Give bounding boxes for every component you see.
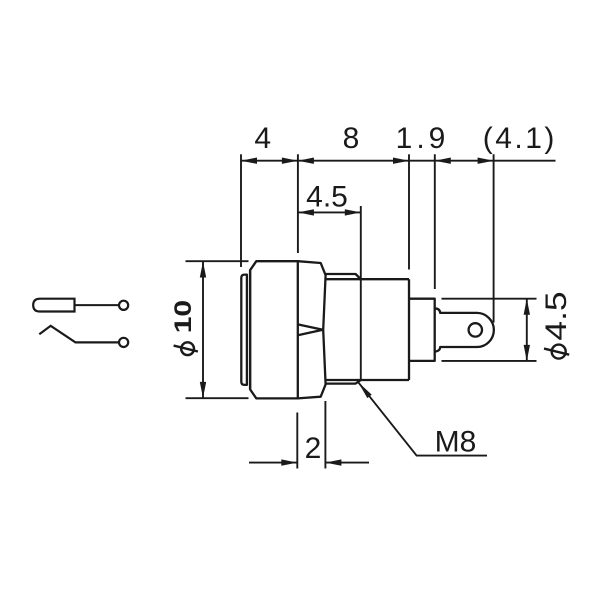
extension line at body end x409 xyxy=(408,154,410,269)
arrow phi10-up xyxy=(200,262,206,278)
svg-text:4.5: 4.5 xyxy=(306,181,348,214)
label phi4.5: phi circle xyxy=(552,345,566,359)
bottom 2 dim: right outside segment xyxy=(325,462,369,464)
svg-text:2: 2 xyxy=(305,432,322,465)
bottom 2 dim: left outside segment xyxy=(249,462,297,464)
label phi4.5: phi slash xyxy=(544,349,569,355)
M8 leader line xyxy=(358,382,487,455)
cap body with chamfered front corners xyxy=(250,261,298,398)
schematic jack symbol: plug pill xyxy=(33,299,74,312)
arrow 4-left xyxy=(241,158,257,164)
lug hole xyxy=(469,323,482,336)
arrow phi4.5-up xyxy=(524,299,530,315)
hex nut outline xyxy=(298,261,326,398)
arrow 8-right xyxy=(393,158,409,164)
label phi10: phi circle xyxy=(181,342,194,355)
hex facet line lower xyxy=(298,330,323,335)
label phi10: phi slash xyxy=(174,346,198,352)
hex facet line upper xyxy=(298,324,323,329)
terminal circle upper xyxy=(119,301,128,310)
svg-text:4: 4 xyxy=(254,122,271,155)
arrow 4.5-left xyxy=(298,209,314,215)
arrow phi4.5-down xyxy=(524,345,530,361)
arrow 4.1-right at 493.6 pointing right xyxy=(478,158,494,164)
arrow 1.9/4.1 shared at 434.8 pointing left xyxy=(435,158,451,164)
top dimension line xyxy=(241,160,556,162)
extension line at cap front x241 xyxy=(240,154,242,267)
arrow 4-right xyxy=(282,158,298,164)
front rim (button tip) xyxy=(241,275,247,385)
phi10 top extension line xyxy=(186,260,249,262)
thread crest top with end chamfer xyxy=(326,274,361,279)
arrow 2-right pointing left xyxy=(325,459,341,465)
dimension linework group xyxy=(186,154,556,468)
phi4.5 bottom extension line xyxy=(442,360,537,362)
M8 leader arrowhead xyxy=(358,382,371,398)
phi10 bottom extension line xyxy=(186,397,249,399)
thread root / body bottom edge xyxy=(326,379,409,381)
svg-text:8: 8 xyxy=(343,122,360,155)
svg-text:(4.1): (4.1) xyxy=(483,122,557,155)
svg-text:4.5: 4.5 xyxy=(539,291,573,340)
svg-text:M8: M8 xyxy=(435,425,477,458)
body right edge xyxy=(408,279,410,380)
arrow 2-left pointing right xyxy=(281,459,297,465)
extension line at lug end x493.6 xyxy=(493,154,495,322)
bottom 2 dim: left extension line xyxy=(296,413,298,469)
thread root / body top edge xyxy=(326,278,409,280)
wire from plug to terminal xyxy=(75,304,119,306)
phi10 dimension line xyxy=(202,262,204,398)
arrow phi10-down xyxy=(200,382,206,398)
thread-end line / 4.5 extension xyxy=(360,206,362,380)
svg-text:10: 10 xyxy=(169,300,196,333)
cap front face line xyxy=(249,270,251,389)
arrow 4.5-right xyxy=(345,209,361,215)
arrowheads xyxy=(200,158,530,466)
dimension texts xyxy=(169,122,572,465)
switch contact polyline xyxy=(39,326,118,343)
thread crest bottom with end chamfer xyxy=(326,380,361,384)
4.5 dimension line xyxy=(298,211,361,213)
extension line at neck end x434.8 xyxy=(434,154,436,289)
part outline group xyxy=(241,261,494,398)
terminal circle lower xyxy=(119,338,128,347)
phi4.5 top extension line xyxy=(442,298,537,300)
neck (4.5 dia section) xyxy=(409,299,435,361)
extension line at cap/hex boundary x298 xyxy=(297,154,299,253)
arrow 8-left xyxy=(298,158,314,164)
svg-text:1.9: 1.9 xyxy=(396,122,450,155)
solder lug with rounded end xyxy=(435,308,494,351)
bottom 2 dim: right extension line xyxy=(324,401,326,469)
phi4.5 dimension line xyxy=(526,299,528,361)
